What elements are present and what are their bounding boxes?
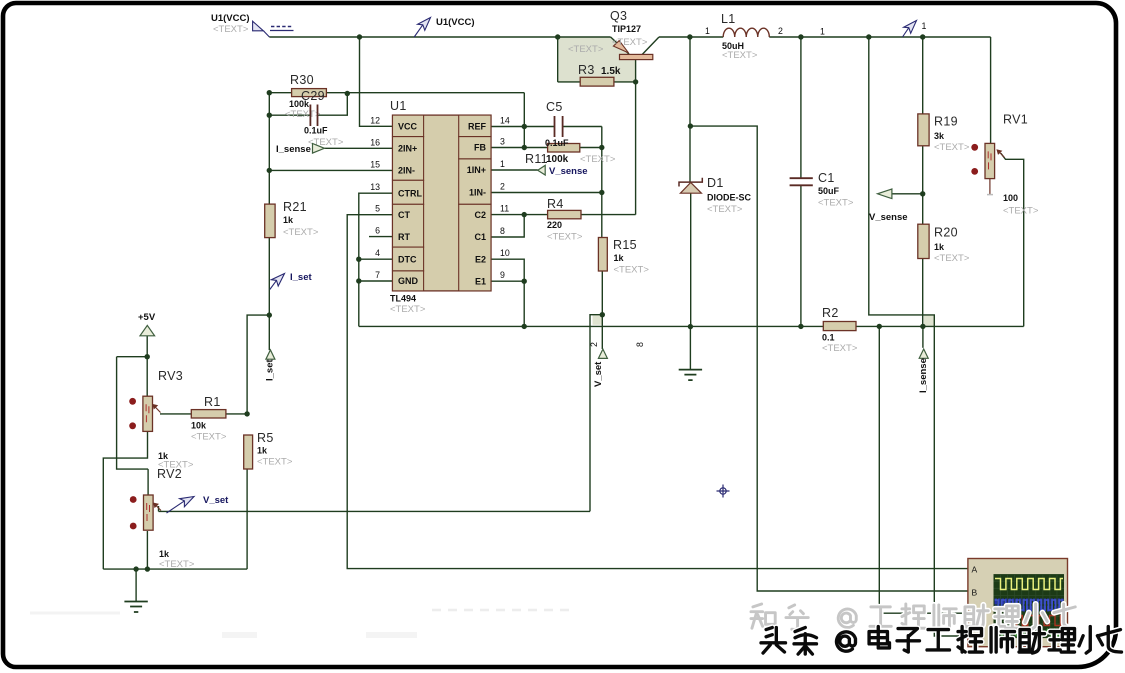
svg-text:14: 14	[500, 116, 510, 126]
svg-text:<TEXT>: <TEXT>	[285, 109, 321, 120]
wire I_set terminal drop	[268, 315, 270, 350]
wire R3 left lead	[558, 81, 581, 83]
svg-text:R21: R21	[283, 200, 307, 214]
svg-text:TIP127: TIP127	[612, 24, 641, 34]
svg-text:9: 9	[500, 270, 505, 280]
svg-text:CTRL: CTRL	[398, 188, 422, 198]
resistor R11	[548, 144, 580, 153]
wire +5V terminal stem	[146, 336, 148, 357]
wire R3 right lead	[614, 81, 636, 83]
wire DTC pin4 wire	[359, 258, 393, 260]
svg-text:D1: D1	[707, 176, 724, 190]
svg-text:16: 16	[370, 137, 380, 147]
terminal I_sense bottom (up triangle)	[919, 349, 928, 358]
svg-text:V_set: V_set	[593, 361, 604, 387]
wire REF pin14 wire to C5	[491, 126, 555, 128]
wire D1 ground stem	[689, 327, 691, 370]
wire-label arrow net 1 top-right	[903, 28, 909, 37]
svg-text:<TEXT>: <TEXT>	[547, 232, 583, 243]
wire RV2 top lead drop	[147, 469, 149, 495]
svg-text:<TEXT>: <TEXT>	[614, 265, 650, 276]
resistor R4	[548, 210, 581, 218]
svg-text:15: 15	[370, 159, 380, 169]
svg-text:R5: R5	[257, 431, 274, 445]
wire output rail down to scope D	[869, 37, 968, 636]
svg-text:11: 11	[500, 204, 509, 214]
wire R4 left lead from node	[524, 214, 547, 216]
wire R19 top wire	[922, 37, 924, 114]
svg-text:2IN-: 2IN-	[398, 166, 415, 176]
svg-text:A: A	[972, 565, 978, 575]
wire SW-node branch to scope B	[690, 126, 968, 591]
origin crosshair marker	[717, 485, 730, 498]
wire R20 bottom wire	[922, 259, 924, 327]
wire R11 right lead	[580, 147, 602, 149]
wire D1 bottom to ground bus	[690, 193, 692, 326]
svg-text:0.1uF: 0.1uF	[304, 126, 328, 136]
svg-text:GND: GND	[398, 276, 419, 286]
ground symbol at D1 bus	[679, 370, 702, 381]
op-amp U1 TL494 body	[393, 115, 492, 291]
wire D1 top wire from rail	[689, 37, 691, 182]
wire 1IN+ pin1 wire to V_sense terminal	[491, 169, 538, 171]
wire C2 pin11 wire	[491, 214, 524, 216]
wire RV1 top lead wire	[990, 37, 992, 143]
wire RV2 bottom lead to bus	[146, 531, 148, 569]
wire GND pin7 wire	[359, 280, 393, 282]
svg-text:RV2: RV2	[157, 467, 182, 481]
svg-text:1IN-: 1IN-	[469, 188, 486, 198]
svg-text:<TEXT>: <TEXT>	[568, 44, 604, 55]
wire R1 right lead to node	[226, 413, 247, 415]
power terminal U1(VCC) top-left flag	[253, 21, 264, 31]
resistor R21	[265, 204, 275, 238]
svg-text:1IN+: 1IN+	[467, 165, 486, 175]
svg-text:1: 1	[705, 26, 710, 36]
svg-text:<TEXT>: <TEXT>	[1003, 206, 1039, 217]
wire R19-R20 middle wire	[922, 146, 924, 224]
svg-text:V_sense: V_sense	[869, 212, 908, 223]
tinted loop region around Q3/R3	[559, 37, 636, 81]
wire CT pin5 wire down to scope A	[347, 215, 968, 569]
svg-text:4: 4	[375, 248, 380, 258]
svg-text:V_set: V_set	[203, 495, 229, 506]
resistor R3	[580, 77, 614, 86]
wire bottom bus	[103, 568, 247, 570]
svg-text:<TEXT>: <TEXT>	[707, 204, 743, 215]
svg-text:2: 2	[589, 342, 599, 347]
svg-text:DIODE-SC: DIODE-SC	[707, 193, 752, 203]
U1 right pin boxes	[459, 115, 491, 137]
svg-text:<TEXT>: <TEXT>	[818, 198, 854, 209]
wire RV3 wiper link to R1	[160, 413, 191, 415]
svg-text:C2: C2	[474, 210, 486, 220]
wire +5V rail to RV2 top	[117, 357, 149, 469]
wire R30 left lead to left rail	[269, 92, 291, 94]
terminal I_sense at pin16 (right triangle)	[313, 144, 325, 154]
terminal V_set (up triangle)	[598, 349, 607, 358]
svg-text:10k: 10k	[191, 421, 207, 431]
scope trace A (yellow square)	[995, 579, 1063, 590]
diode D1 DIODE-SC cathode bar with schottky hooks	[679, 178, 702, 187]
resistor R5	[244, 435, 253, 469]
svg-text:7: 7	[375, 270, 380, 280]
wire ground bus to R2 left	[359, 325, 824, 327]
wire CTRL pin13 wire	[359, 193, 393, 326]
svg-text:3: 3	[500, 137, 505, 147]
wire R15 bottom to V_set terminal	[601, 271, 603, 349]
resistor R2	[823, 322, 856, 331]
svg-text:<TEXT>: <TEXT>	[934, 142, 970, 153]
svg-text:1: 1	[922, 21, 927, 31]
power terminal +5V	[140, 325, 155, 335]
svg-text:8: 8	[635, 342, 645, 347]
terminal V_sense at pin1 (left triangle)	[538, 165, 546, 175]
svg-text:U1: U1	[390, 99, 407, 113]
svg-text:VCC: VCC	[398, 122, 418, 132]
svg-text:1k: 1k	[283, 215, 294, 225]
svg-text:V_sense: V_sense	[549, 166, 588, 177]
wire top rail VCC from U1(VCC) terminal to Q3 emitter	[269, 36, 610, 38]
highlight square at I_sense node	[924, 315, 935, 326]
wire-label arrow I_set	[270, 280, 277, 289]
svg-text:R2: R2	[822, 306, 839, 320]
watermark grey row zhihu	[751, 604, 1076, 629]
Q3 emitter arrowhead	[613, 41, 628, 53]
wire Q3 base rail down to R4	[635, 60, 637, 215]
svg-text:2: 2	[778, 26, 783, 36]
scope trace C (red square)	[995, 616, 1063, 626]
svg-text:100k: 100k	[289, 99, 310, 109]
svg-text:R4: R4	[547, 197, 564, 211]
svg-text:I_sense: I_sense	[276, 144, 311, 155]
svg-text:1k: 1k	[934, 242, 945, 252]
wire x524 rail REF-FB	[523, 93, 525, 148]
wire FB pin3 wire to R11	[491, 147, 548, 149]
U1 left pin boxes	[393, 115, 424, 137]
transistor Q3 TIP127 base bar	[620, 54, 653, 59]
D1 triangle	[680, 183, 701, 194]
wire R5 node riser to I_set node	[247, 315, 269, 414]
svg-text:Q3: Q3	[610, 9, 627, 23]
svg-text:B: B	[972, 588, 978, 598]
RV3 wiper arrow	[155, 406, 161, 412]
svg-text:FB: FB	[474, 143, 486, 153]
resistor R15	[598, 238, 607, 272]
wire C5 right to x602 rail	[563, 126, 602, 128]
svg-text:8: 8	[500, 226, 505, 236]
svg-text:C1: C1	[818, 171, 835, 185]
svg-text:1: 1	[820, 27, 825, 37]
wire R2-right I_sense branch to scope C	[879, 326, 968, 613]
svg-text:<TEXT>: <TEXT>	[934, 253, 970, 264]
wire RT pin6 stub	[369, 236, 393, 238]
wire C29 left lead	[269, 114, 310, 116]
svg-text:L1: L1	[721, 12, 736, 26]
svg-text:+5V: +5V	[138, 312, 156, 323]
wire C29 right riser to R30 wire	[318, 94, 348, 116]
wire C1 bottom wire	[800, 185, 802, 326]
svg-text:0.1: 0.1	[822, 333, 835, 343]
svg-text:C5: C5	[546, 100, 563, 114]
svg-text:RT: RT	[398, 232, 410, 242]
svg-text:R30: R30	[290, 73, 314, 87]
resistor R1	[191, 410, 226, 418]
wire Q3 emitter diagonal	[611, 37, 630, 54]
ground symbol bottom-left	[124, 602, 147, 613]
potentiometer RV3 adjust dots	[129, 398, 136, 405]
svg-text:<TEXT>: <TEXT>	[822, 343, 858, 354]
potentiometer RV2 body	[144, 495, 154, 530]
wire R4 right lead to Q3 base rail	[581, 214, 636, 216]
terminal V_sense right side (left triangle)	[878, 189, 892, 199]
svg-text:I_set: I_set	[265, 359, 276, 381]
wire R5 bottom to bus	[246, 469, 248, 569]
potentiometer RV1 body	[985, 143, 995, 178]
svg-text:1k: 1k	[614, 253, 625, 263]
svg-text:<TEXT>: <TEXT>	[191, 432, 227, 443]
RV2 wiper arrow	[156, 505, 162, 511]
wire R3 top-left drop from rail	[557, 37, 559, 82]
svg-text:1k: 1k	[257, 446, 268, 456]
scope trace D (green)	[995, 629, 1065, 636]
wire I_sense terminal drop	[922, 326, 924, 347]
capacitor C1 plates	[790, 178, 813, 185]
wire-label arrow V_set	[167, 501, 185, 513]
wire left rail x269 lower below R21	[268, 238, 270, 316]
wire ground bus R2 right to RV1 wiper corner	[856, 325, 1024, 327]
wire pin15 2IN- wire	[269, 169, 392, 171]
svg-text:13: 13	[370, 182, 380, 192]
svg-text:R15: R15	[613, 238, 637, 252]
wire V_sense terminal wire	[892, 193, 923, 195]
scope trace B (blue)	[994, 599, 1064, 612]
svg-text:50uF: 50uF	[818, 186, 840, 196]
svg-text:<TEXT>: <TEXT>	[257, 457, 293, 468]
wire C1 top wire	[800, 37, 802, 178]
svg-text:I_sense: I_sense	[918, 358, 929, 393]
wire C1 pin8 wire loop to pin11	[491, 215, 524, 237]
svg-text:<TEXT>: <TEXT>	[722, 50, 758, 61]
svg-text:2IN+: 2IN+	[398, 144, 417, 154]
svg-text:E1: E1	[475, 276, 486, 286]
svg-text:12: 12	[370, 115, 380, 125]
svg-text:REF: REF	[468, 122, 487, 132]
wire-label arrow U1(VCC) top-middle	[414, 25, 423, 37]
wire VCC drop to pin 12	[360, 37, 393, 126]
wire x602 rail to R15	[601, 127, 603, 238]
svg-text:1: 1	[500, 159, 505, 169]
svg-text:<TEXT>: <TEXT>	[580, 154, 616, 165]
potentiometer RV1 adjust dots	[971, 144, 978, 151]
wire top rail from L1 to RV1 top corner	[769, 36, 990, 38]
wire RV3 top lead wire	[146, 357, 148, 397]
svg-text:R3: R3	[578, 63, 595, 77]
svg-text:R19: R19	[934, 115, 958, 129]
wire E2 pin10 wire loop	[491, 259, 524, 281]
oscilloscope body	[968, 559, 1068, 647]
capacitor C5 plates	[555, 116, 563, 137]
svg-text:0.1uF: 0.1uF	[545, 138, 569, 148]
svg-text:100k: 100k	[546, 154, 569, 165]
svg-text:<TEXT>: <TEXT>	[159, 559, 195, 570]
svg-text:100: 100	[1003, 193, 1018, 203]
wire top rail from Q3 collector to L1	[659, 36, 723, 38]
svg-text:U1(VCC): U1(VCC)	[436, 17, 475, 28]
resistor R30	[292, 89, 327, 97]
wire Q3 collector diagonal	[642, 37, 659, 54]
wire 1IN- pin2 wire	[491, 192, 602, 194]
RV1 wiper arrow	[999, 152, 1005, 158]
svg-text:2: 2	[500, 182, 505, 192]
svg-text:U1(VCC): U1(VCC)	[211, 13, 250, 24]
svg-text:5: 5	[375, 204, 380, 214]
svg-text:R1: R1	[204, 395, 221, 409]
inductor L1 coil	[723, 28, 769, 37]
svg-text:3k: 3k	[934, 131, 945, 141]
svg-text:1.5k: 1.5k	[601, 66, 621, 77]
hidden-power dashes	[271, 26, 293, 28]
resistor R19	[918, 114, 929, 146]
RV1 bottom dangling lead	[989, 179, 991, 195]
svg-text:TL494: TL494	[390, 294, 416, 304]
svg-text:10: 10	[500, 248, 510, 258]
wire RV2 wiper run	[159, 510, 591, 512]
svg-text:E2: E2	[475, 254, 486, 264]
svg-text:<TEXT>: <TEXT>	[612, 37, 648, 48]
svg-text:RV1: RV1	[1003, 113, 1028, 127]
junction dots	[357, 34, 362, 39]
wire E1-E2 drop to ground bus	[523, 281, 525, 326]
svg-text:<TEXT>: <TEXT>	[213, 24, 249, 35]
svg-text:RV3: RV3	[158, 369, 183, 383]
svg-text:<TEXT>: <TEXT>	[283, 227, 319, 238]
potentiometer RV3 body	[143, 396, 153, 431]
svg-text:I_set: I_set	[290, 272, 312, 283]
terminal I_set (up triangle)	[266, 350, 275, 359]
svg-text:CT: CT	[398, 210, 410, 220]
svg-text:R20: R20	[934, 226, 958, 240]
wire I_sense terminal wire to pin 16	[325, 147, 393, 149]
watermark black row toutiao	[761, 627, 1121, 655]
oscilloscope screen	[994, 574, 1065, 638]
svg-text:R11: R11	[525, 152, 548, 166]
wire RV1 wiper run to ground-bus corner	[1001, 153, 1024, 326]
wire RV3 bottom rail to bottom bus	[103, 431, 147, 569]
svg-text:<TEXT>: <TEXT>	[390, 304, 426, 315]
svg-text:220: 220	[547, 220, 562, 230]
wire ground stem bottom-left	[135, 569, 137, 601]
svg-text:DTC: DTC	[398, 254, 417, 264]
resistor R20	[918, 224, 929, 258]
wire R30 right lead to x524 rail	[326, 92, 524, 94]
capacitor C29 plates	[310, 105, 317, 127]
faint watermark residue dashes	[432, 609, 574, 612]
wire V_set node stub down to RV2 wiper run	[590, 315, 602, 512]
svg-text:C1: C1	[474, 232, 486, 242]
highlight square at V_set node	[593, 315, 602, 325]
wire E1 pin9 wire	[491, 280, 524, 282]
wire RV2 wiper link	[158, 506, 160, 511]
wire left rail x269 upper	[268, 93, 270, 204]
potentiometer RV2 adjust dots	[130, 496, 137, 503]
svg-text:6: 6	[375, 226, 380, 236]
svg-text:1k: 1k	[159, 549, 170, 559]
